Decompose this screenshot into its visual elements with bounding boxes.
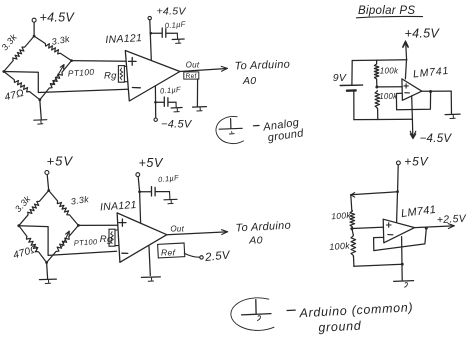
svg-text:+4.5V: +4.5V — [157, 6, 187, 18]
wire: Ref to +2.5V (lower) — [184, 253, 200, 257]
junction: bridge right node — [70, 59, 73, 62]
junction: bridge bottom node — [38, 98, 41, 101]
svg-text:To Arduino: To Arduino — [234, 59, 290, 73]
svg-text:Ref: Ref — [186, 73, 197, 80]
wire: C2 to ground — [169, 101, 177, 103]
node: +5V terminal at V+ (lower amp) — [136, 173, 140, 177]
resistor 3.3k (upper bridge, top-left arm) — [4, 36, 34, 71]
svg-text:−4.5V: −4.5V — [420, 133, 453, 145]
resistor PT100 (upper bridge, bottom-right arm, variable) — [40, 61, 72, 100]
annotation ground symbol (Arduino ground) — [255, 300, 257, 314]
resistor 100k (divider upper, bipolar PS) — [374, 63, 378, 79]
plus marker U4 — [386, 224, 391, 226]
svg-text:A0: A0 — [242, 75, 256, 87]
junction: divider midpoint (2.5V ref) — [350, 227, 353, 230]
wire: rail to upper 100k — [351, 195, 352, 211]
wire: LM741 V- pin to bottom rail — [411, 96, 414, 119]
junction: +5V rail tap — [396, 190, 399, 193]
svg-text:Out: Out — [170, 224, 184, 233]
svg-text:INA121: INA121 — [100, 199, 138, 214]
svg-text:0.1µF: 0.1µF — [164, 20, 186, 31]
svg-text:A0: A0 — [248, 235, 262, 247]
svg-text:PT100: PT100 — [67, 67, 94, 79]
svg-text:Bipolar PS: Bipolar PS — [358, 5, 415, 17]
wire: C3 to ground — [156, 191, 170, 193]
wire: +5V terminal to bridge top node — [47, 175, 49, 191]
op-amp U4 LM741 (2.5V reference) — [383, 219, 414, 243]
junction: lower bridge top node — [47, 189, 50, 192]
pin Ref of U1 (boxed label, upper) — [184, 72, 199, 79]
plus input marker U1 — [128, 60, 136, 62]
ground (2.5V reference) — [394, 280, 414, 283]
wire: bridge left node to INA121 inverting input — [4, 72, 128, 93]
svg-text:PT100: PT100 — [74, 237, 99, 248]
wire: U4 output to +2.5V — [415, 226, 453, 228]
svg-text:Rg: Rg — [100, 234, 113, 245]
node: 2.5V terminal (lower) — [200, 256, 203, 259]
wire: U3 output to Arduino A0 (lower) — [167, 232, 227, 235]
wire: INA121 V- pin to -4.5V (upper) — [154, 86, 156, 118]
capacitor C3 0.1uF (lower amp decoupling) — [151, 187, 153, 196]
minus marker U4 — [388, 234, 393, 236]
resistor 100k (divider lower, bipolar PS) — [375, 91, 379, 109]
svg-text:100k: 100k — [380, 66, 399, 75]
resistor 3.3k (lower bridge, top-right arm) — [49, 191, 79, 226]
wire: U2 output node — [422, 90, 451, 92]
arrow tick at rail left end — [351, 193, 355, 195]
resistor 100k (lower divider, 2.5V ref) — [351, 235, 356, 256]
svg-text:+5V: +5V — [47, 154, 74, 169]
wire: U4 feedback (output to - input) — [374, 229, 427, 251]
junction: V- decoupling tap — [154, 101, 157, 104]
node: +4.5V supply terminal (upper bridge) — [32, 18, 36, 22]
svg-text:+4.5V: +4.5V — [405, 27, 441, 41]
ground (C1) — [172, 38, 184, 41]
junction: V+ decoupling tap (lower) — [138, 190, 141, 193]
svg-text:+5V: +5V — [139, 156, 164, 170]
wire: 100k to divider midpoint — [376, 80, 378, 87]
minus input marker U1 — [132, 87, 140, 89]
junction: bottom rail to ground stem — [401, 263, 404, 266]
resistor 3.3k (lower bridge, top-left arm) — [19, 191, 49, 226]
arrow: +4.5V output (up) — [405, 43, 408, 61]
junction: U2 output — [429, 90, 432, 93]
svg-text:100k: 100k — [331, 210, 352, 221]
annotation dash (Arduino ground) — [287, 309, 295, 311]
svg-text:ground: ground — [318, 319, 362, 335]
junction: lower bridge left node — [17, 224, 20, 227]
annotation circle (analog ground note) — [216, 116, 244, 143]
resistor PT100 (lower bridge, bottom-right arm, variable) — [47, 225, 79, 262]
wire: battery - to bottom rail — [353, 91, 355, 120]
junction: lower bridge bottom node — [45, 261, 48, 264]
svg-text:100k: 100k — [329, 241, 351, 252]
wire: -4.5V output (down) with arrow — [411, 119, 413, 135]
wire: top rail to divider (2.5V ref) — [351, 192, 398, 195]
annotation circle (Arduino ground note) — [231, 298, 274, 331]
wire: divider midpoint to LM741 + input — [352, 227, 383, 228]
wire: +5V terminal to INA121 V+ pin — [138, 177, 139, 192]
plus input marker U3 — [119, 222, 126, 224]
wire: bottom rail — [354, 118, 413, 120]
svg-text:−4.5V: −4.5V — [161, 119, 193, 131]
minus marker U2 — [405, 92, 410, 94]
wire: bottom rail (2.5V ref) — [354, 264, 402, 266]
resistor 3.3k (upper bridge, top-right arm) — [34, 36, 71, 61]
wire: lower 100k to bottom rail — [377, 109, 379, 120]
wire: U1 output to Arduino A0 (upper) — [180, 69, 227, 72]
ground (lower amp V-) — [141, 276, 160, 279]
op-amp U3 INA121 (lower) — [117, 213, 167, 262]
wire: bridge right node to INA121 non-inverting input — [72, 60, 127, 63]
node: +4.5V terminal at V+ (upper) — [148, 16, 151, 19]
wire: V- tap to capacitor C2 — [156, 101, 164, 103]
wire: lower 100k to bottom rail — [353, 256, 355, 266]
resistor 100k (upper divider, 2.5V ref) — [350, 211, 355, 228]
wire: top rail to 100k divider — [376, 60, 378, 63]
junction: V+ decoupling tap — [150, 32, 153, 35]
wire: battery + to top rail — [351, 61, 353, 86]
svg-text:Rg: Rg — [104, 71, 117, 82]
wire: U4 V- pin to ground — [401, 237, 404, 280]
wire: V+ tap to capacitor C3 — [140, 191, 151, 193]
op-amp U1 INA121 (upper) — [125, 51, 180, 102]
op-amp U2 LM741 (bipolar PS) — [402, 79, 422, 100]
wire: V+ tap to capacitor C1 — [151, 32, 162, 34]
wire: bridge bottom node to ground — [40, 100, 42, 120]
svg-text:Out: Out — [186, 61, 200, 70]
ground (upper bridge) — [34, 119, 47, 122]
wire: lower bridge left node to INA121 inverting input — [19, 226, 117, 256]
wire: lower bridge bottom node to ground — [47, 263, 48, 279]
junction: bridge top node — [33, 35, 36, 38]
resistor Rg (lower INA121 gain resistor) — [115, 229, 118, 231]
annotation dash (analog ground) — [253, 125, 259, 127]
ground (Ref, upper) — [193, 106, 207, 109]
svg-text:Ref: Ref — [161, 247, 176, 257]
battery 9V (short plate) — [347, 89, 356, 92]
wire: U3 V- pin to ground (lower) — [149, 246, 150, 275]
wire: divider midpoint to LM741 + input — [377, 86, 402, 88]
wire: top rail to LM741 V+ pin — [405, 60, 406, 79]
pin Ref of U3 (boxed label, lower) — [158, 243, 185, 258]
svg-text:0.1µF: 0.1µF — [160, 85, 182, 96]
minus input marker U3 — [122, 252, 128, 254]
wire: U2 output to virtual ground — [450, 91, 452, 114]
capacitor C1 0.1uF (V+ decoupling) — [161, 28, 163, 37]
junction: U4 output — [425, 227, 428, 230]
wire: +4.5V terminal to bridge top node — [33, 22, 35, 36]
annotation ground symbol (analog ground) — [230, 119, 232, 129]
wire: C1 to ground — [166, 32, 177, 34]
node: -4.5V terminal at V- (upper) — [154, 118, 157, 121]
battery 9V (long plate) — [340, 84, 362, 86]
wire: top rail (battery + to divider and op-amp V+) — [352, 59, 407, 62]
wire: +5V to top rail and LM741 V+ — [397, 165, 400, 192]
svg-text:+2.5V: +2.5V — [437, 213, 468, 227]
wire: U2 feedback (output to - input) — [396, 92, 430, 110]
ground (C3) — [164, 198, 177, 201]
resistor 47Ω (upper bridge, bottom-left arm) — [4, 72, 40, 100]
wire: lower bridge right node to INA121 non-inverting input — [78, 224, 117, 226]
node: +5V terminal (2.5V reference) — [397, 161, 401, 165]
junction: divider midpoint (bipolar PS) — [375, 86, 378, 89]
svg-text:100k: 100k — [379, 92, 398, 101]
ground (C2) — [171, 107, 182, 110]
arrow of PT100 variable resistor — [52, 65, 64, 85]
svg-text:INA121: INA121 — [105, 32, 142, 46]
svg-text:+4.5V: +4.5V — [40, 11, 76, 25]
underline of title Bipolar PS — [357, 16, 423, 17]
arrow of PT100 (lower) — [62, 231, 69, 246]
wire: INA121 V+ pin to +4.5V (upper) — [150, 20, 152, 61]
node: +5V supply terminal (lower bridge) — [45, 171, 49, 175]
capacitor C2 0.1uF (V- decoupling) — [163, 97, 165, 106]
junction: lower bridge right node — [77, 224, 80, 227]
svg-text:9V: 9V — [333, 72, 347, 84]
resistor 470Ω (lower bridge, bottom-left arm) — [19, 226, 47, 263]
ground (lower bridge) — [39, 278, 56, 281]
plus marker U2 — [404, 85, 408, 87]
junction: bridge left node — [2, 70, 5, 73]
resistor Rg (upper INA121 gain resistor) — [124, 65, 126, 67]
ground (virtual ground, bipolar PS) — [445, 113, 460, 116]
wire: Ref to ground (upper) — [196, 79, 198, 106]
svg-text:+5V: +5V — [404, 155, 428, 169]
